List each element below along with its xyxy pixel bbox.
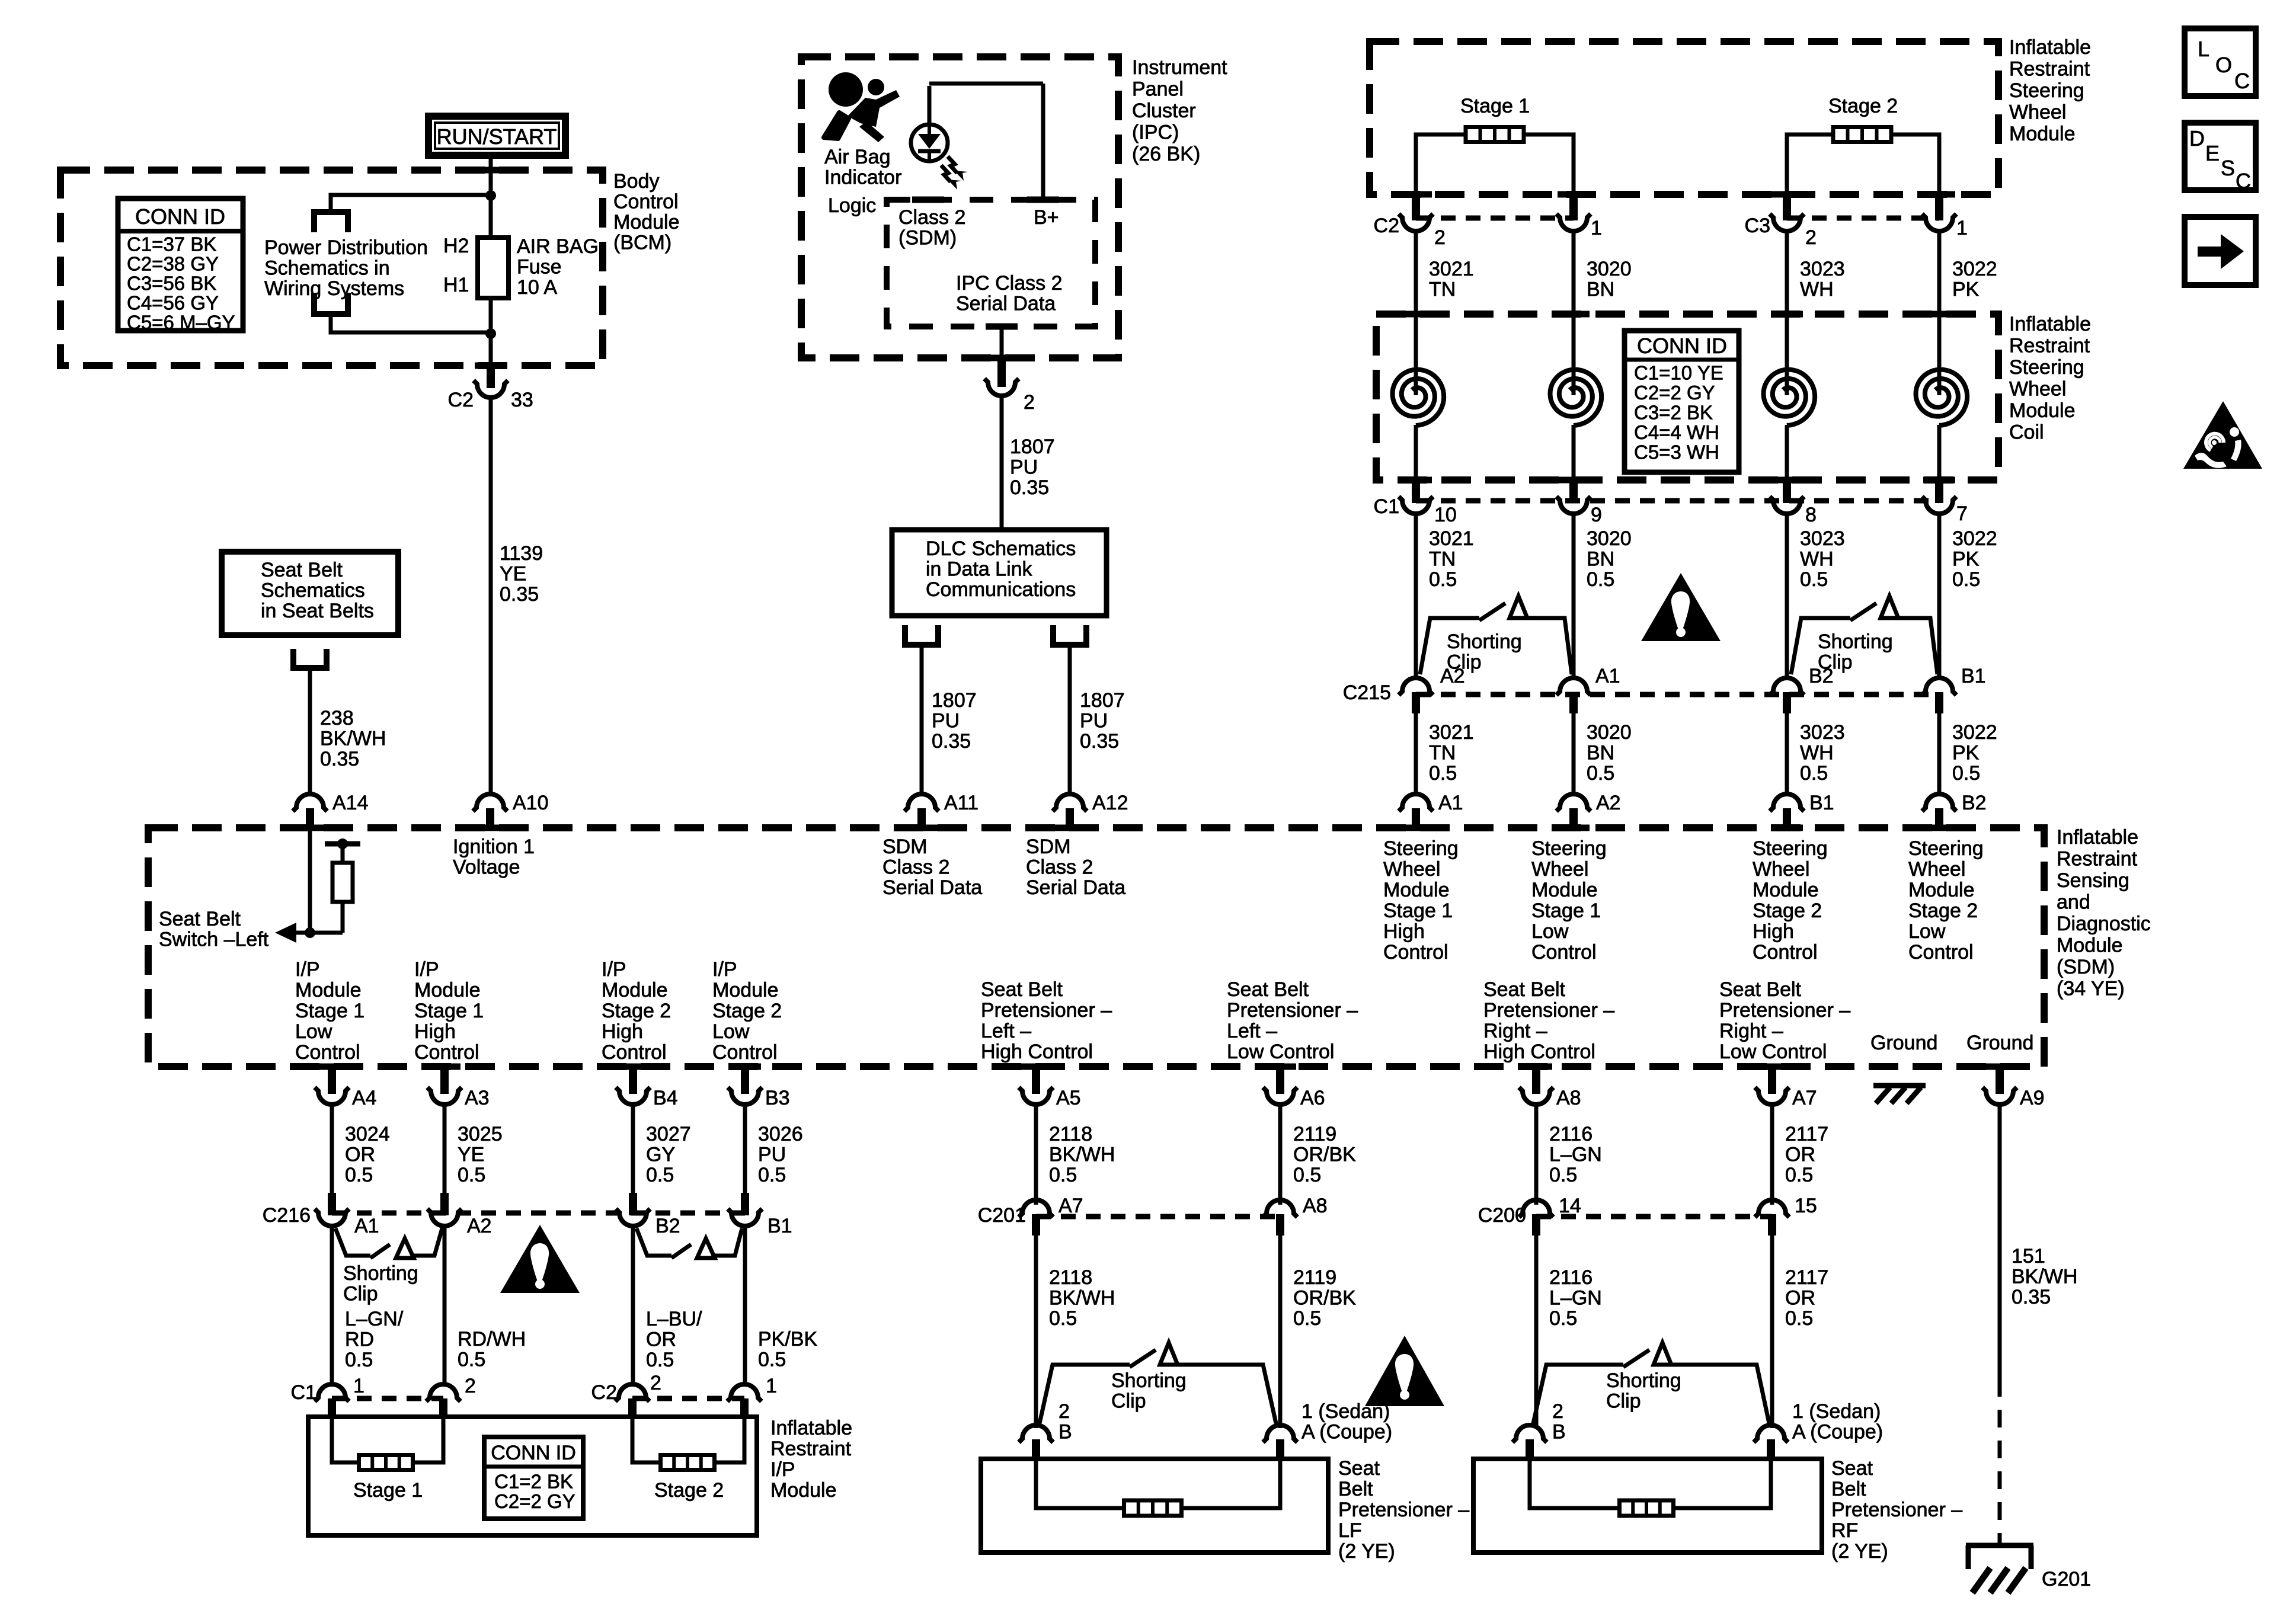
svg-text:3022: 3022 <box>1952 527 1997 550</box>
svg-text:0.5: 0.5 <box>758 1349 786 1371</box>
svg-text:Module: Module <box>613 211 680 233</box>
svg-text:0.5: 0.5 <box>458 1349 485 1371</box>
svg-text:A9: A9 <box>2020 1087 2045 1109</box>
svg-text:PK: PK <box>1952 742 1980 764</box>
svg-text:C200: C200 <box>1478 1204 1526 1227</box>
svg-text:Module: Module <box>414 979 481 1001</box>
svg-text:2118: 2118 <box>1049 1266 1092 1289</box>
svg-text:Right –: Right – <box>1719 1020 1783 1042</box>
wire squib2 left leg <box>1787 135 1833 194</box>
svg-text:Inflatable: Inflatable <box>2009 313 2091 335</box>
svg-text:Seat Belt: Seat Belt <box>1719 978 1802 1001</box>
svg-text:1807: 1807 <box>932 689 977 712</box>
svg-text:Logic: Logic <box>828 194 876 217</box>
svg-text:BN: BN <box>1587 548 1614 571</box>
svg-text:Low Control: Low Control <box>1227 1041 1334 1063</box>
in-line connector line C3 (dotted) <box>1787 216 1939 221</box>
svg-text:Control: Control <box>712 1041 778 1064</box>
svg-text:2: 2 <box>650 1372 661 1394</box>
svg-text:YE: YE <box>500 563 526 585</box>
svg-text:Inflatable: Inflatable <box>770 1417 852 1439</box>
svg-text:L: L <box>2198 37 2209 61</box>
svg-text:0.5: 0.5 <box>1429 568 1457 591</box>
LED light arrows <box>948 156 957 173</box>
svg-text:C216: C216 <box>263 1204 311 1227</box>
svg-text:PU: PU <box>758 1144 786 1166</box>
svg-text:0.5: 0.5 <box>1952 568 1980 591</box>
svg-text:RD: RD <box>345 1329 374 1351</box>
wire I/P stage1 left <box>332 1417 359 1462</box>
svg-text:Instrument: Instrument <box>1132 56 1227 79</box>
svg-text:Module: Module <box>1753 879 1819 901</box>
wire 3023 WH lower <box>1785 711 1789 796</box>
svg-text:2: 2 <box>1059 1400 1070 1423</box>
svg-text:Wheel: Wheel <box>1753 858 1809 881</box>
wire IPC top horizontal <box>929 82 1043 86</box>
svg-text:Control: Control <box>1908 941 1974 964</box>
wire 151 BK/WH dashed <box>1998 1379 2002 1544</box>
svg-text:Air Bag: Air Bag <box>824 146 891 168</box>
svg-text:C: C <box>2234 69 2250 93</box>
svg-text:B1: B1 <box>768 1215 792 1237</box>
inner box SDM logic (dashed) <box>887 200 1095 327</box>
svg-text:Seat Belt: Seat Belt <box>261 559 343 581</box>
wire inner box to IPC edge <box>1000 327 1004 363</box>
svg-text:Stage 1: Stage 1 <box>414 1000 484 1022</box>
connector A8 (SDM bottom) <box>1532 1067 1540 1094</box>
svg-text:(34 YE): (34 YE) <box>2057 978 2125 1000</box>
svg-text:High: High <box>414 1020 456 1043</box>
wire L-BU/OR <box>631 1227 635 1387</box>
svg-text:C2: C2 <box>1374 215 1399 237</box>
svg-text:B2: B2 <box>1809 665 1834 687</box>
wire 3020 BN upper <box>1572 231 1576 369</box>
svg-text:L–BU/: L–BU/ <box>646 1308 702 1330</box>
svg-text:Wheel: Wheel <box>1383 858 1440 881</box>
icon box DESC <box>2185 123 2256 190</box>
svg-text:(BCM): (BCM) <box>613 232 671 254</box>
svg-text:PK: PK <box>1952 279 1980 301</box>
wire 3021 TN lower <box>1414 711 1418 796</box>
svg-text:Shorting: Shorting <box>343 1262 418 1285</box>
svg-text:3023: 3023 <box>1800 258 1845 280</box>
wire I/P stage2 left <box>632 1417 660 1462</box>
svg-text:(SDM): (SDM) <box>898 227 957 249</box>
svg-text:3021: 3021 <box>1429 258 1474 280</box>
svg-text:Pretensioner –: Pretensioner – <box>981 999 1112 1022</box>
svg-text:9: 9 <box>1591 504 1602 526</box>
svg-text:A10: A10 <box>513 792 549 814</box>
reference box Seat Belt Schematics <box>222 552 398 635</box>
squib Stage 1 (I/P) <box>359 1455 413 1470</box>
connector 2 below IPC <box>997 358 1006 387</box>
wire 3027 GY <box>631 1105 635 1195</box>
svg-text:Schematics: Schematics <box>261 580 365 602</box>
svg-text:PU: PU <box>932 710 960 732</box>
BCM box crossing dashes <box>475 167 507 174</box>
svg-text:High: High <box>1383 920 1425 943</box>
module box Seat Belt Pretensioner RF <box>1473 1459 1822 1553</box>
svg-text:1139: 1139 <box>500 542 543 565</box>
svg-text:A7: A7 <box>1059 1195 1083 1217</box>
svg-text:1 (Sedan): 1 (Sedan) <box>1302 1400 1390 1423</box>
module box Inflatable Restraint I/P Module <box>308 1417 757 1535</box>
connector C1 pin 8 <box>1783 480 1791 503</box>
reference box DLC Schematics <box>892 530 1107 616</box>
svg-text:Module: Module <box>1531 879 1598 901</box>
svg-text:Fuse: Fuse <box>517 256 562 279</box>
wire RUN/START to fuse <box>489 156 493 201</box>
svg-text:A (Coupe): A (Coupe) <box>1792 1421 1883 1443</box>
svg-text:Restraint: Restraint <box>2009 58 2090 81</box>
connector A3 (SDM bottom) <box>440 1067 449 1094</box>
wire squib1 left leg <box>1416 135 1466 194</box>
svg-text:Stage 1: Stage 1 <box>295 1000 364 1022</box>
svg-text:3023: 3023 <box>1800 721 1845 744</box>
svg-text:A7: A7 <box>1792 1087 1817 1109</box>
svg-text:Clip: Clip <box>1606 1390 1641 1413</box>
svg-text:Pretensioner –: Pretensioner – <box>1719 999 1850 1022</box>
svg-text:L–GN: L–GN <box>1549 1144 1602 1166</box>
svg-text:BK/WH: BK/WH <box>320 728 386 750</box>
coil clockspring 4 <box>1916 370 1968 425</box>
connector B4 (SDM bottom) <box>629 1067 637 1094</box>
svg-text:Steering: Steering <box>1753 837 1828 860</box>
table CONN ID (BCM) <box>118 199 243 331</box>
svg-text:A12: A12 <box>1092 792 1128 814</box>
svg-text:C1=10 YE: C1=10 YE <box>1634 361 1723 383</box>
svg-text:1807: 1807 <box>1010 436 1055 458</box>
svg-text:RUN/START: RUN/START <box>437 124 557 149</box>
svg-text:0.35: 0.35 <box>320 748 359 770</box>
svg-text:Stage 2: Stage 2 <box>1908 900 1978 922</box>
connector A4 (SDM bottom) <box>328 1067 336 1094</box>
wire PK/BK <box>743 1227 747 1387</box>
svg-text:2118: 2118 <box>1049 1123 1092 1145</box>
squib pretensioner LF <box>1124 1500 1182 1516</box>
svg-text:B+: B+ <box>1034 206 1059 229</box>
coil clockspring 2 <box>1550 370 1602 425</box>
svg-text:1: 1 <box>766 1375 777 1397</box>
wire 3025 YE <box>443 1105 447 1195</box>
wire 3022 PK upper <box>1937 231 1942 369</box>
svg-text:2119: 2119 <box>1293 1123 1336 1145</box>
svg-text:1807: 1807 <box>1080 689 1125 712</box>
svg-text:Stage 1: Stage 1 <box>1531 900 1601 922</box>
warning triangle (pretensioner) <box>1365 1336 1444 1406</box>
svg-text:Steering: Steering <box>1908 837 1984 860</box>
connector B2 (SDM) <box>1922 794 1956 811</box>
svg-text:High Control: High Control <box>981 1041 1093 1063</box>
connector pretensioner RF pin B <box>1512 1425 1547 1442</box>
svg-text:A8: A8 <box>1303 1195 1328 1217</box>
connector B1 (SDM) <box>1770 794 1804 811</box>
svg-text:Body: Body <box>613 170 660 193</box>
svg-text:IPC Class 2: IPC Class 2 <box>956 272 1063 295</box>
wire 1807 PU upper <box>1000 396 1004 532</box>
svg-text:I/P: I/P <box>602 958 626 981</box>
wire resistor to junction row <box>341 902 345 933</box>
svg-text:C2=2 GY: C2=2 GY <box>494 1490 575 1512</box>
svg-text:BK/WH: BK/WH <box>2012 1266 2077 1288</box>
svg-text:Control: Control <box>1531 941 1597 964</box>
svg-text:Low Control: Low Control <box>1719 1041 1827 1063</box>
svg-text:0.5: 0.5 <box>646 1349 674 1371</box>
svg-text:B1: B1 <box>1961 665 1986 687</box>
resistor seat belt switch <box>332 863 353 902</box>
svg-text:8: 8 <box>1805 504 1817 526</box>
svg-text:Switch –Left: Switch –Left <box>159 929 269 951</box>
wire 2118 BK/WH lower <box>1034 1233 1038 1428</box>
svg-text:Seat Belt: Seat Belt <box>981 978 1063 1001</box>
svg-text:B: B <box>1552 1421 1566 1443</box>
svg-text:0.5: 0.5 <box>1049 1307 1077 1330</box>
svg-text:Belt: Belt <box>1338 1478 1373 1500</box>
icon air bag indicator <box>829 72 863 107</box>
svg-text:3026: 3026 <box>758 1123 803 1145</box>
connector A2 (SDM) <box>1556 794 1591 811</box>
svg-text:0.5: 0.5 <box>758 1164 786 1186</box>
svg-text:Class 2: Class 2 <box>882 856 949 879</box>
svg-text:A1: A1 <box>354 1215 379 1237</box>
svg-text:PK/BK: PK/BK <box>758 1328 817 1350</box>
svg-text:0.5: 0.5 <box>1587 568 1614 591</box>
svg-text:3022: 3022 <box>1952 721 1997 744</box>
svg-text:0.5: 0.5 <box>1293 1307 1321 1330</box>
svg-text:OR/BK: OR/BK <box>1293 1144 1356 1166</box>
off-page bracket below DLC (left) <box>902 625 908 644</box>
svg-text:OR: OR <box>1785 1144 1815 1166</box>
wire squib2 right leg <box>1891 135 1939 194</box>
shorting clip (C215 A2-A1) <box>1420 618 1479 674</box>
svg-text:3027: 3027 <box>646 1123 691 1145</box>
svg-text:C1=37 BK: C1=37 BK <box>127 233 216 255</box>
svg-text:Inflatable: Inflatable <box>2057 826 2138 849</box>
svg-text:A2: A2 <box>467 1215 492 1237</box>
connector C216 pin A1 <box>328 1193 336 1215</box>
connector C1 pin 10 <box>1412 480 1420 503</box>
off-page reference power distribution (bottom bracket) <box>311 293 317 313</box>
svg-text:1: 1 <box>1591 217 1602 239</box>
svg-text:B4: B4 <box>653 1087 678 1109</box>
svg-text:C215: C215 <box>1343 681 1391 704</box>
shorting clip (pretensioner RF) <box>1533 1365 1623 1423</box>
wire RF right leg <box>1673 1459 1771 1508</box>
connector C1 pin 1 (I/P) <box>315 1384 349 1401</box>
wire LED top feed <box>928 86 932 126</box>
svg-text:2: 2 <box>465 1375 476 1397</box>
svg-text:TN: TN <box>1429 548 1456 571</box>
svg-text:Seat Belt: Seat Belt <box>159 908 241 930</box>
in-line connector line C201 (dotted) <box>1036 1214 1280 1219</box>
svg-text:C1: C1 <box>291 1381 316 1404</box>
svg-text:2116: 2116 <box>1549 1123 1593 1145</box>
arrow to seat belt switch <box>296 931 310 935</box>
IPC box crossing dash <box>986 355 1018 361</box>
wire 3023 WH middle <box>1785 514 1789 680</box>
svg-text:High: High <box>602 1020 643 1043</box>
svg-text:Panel: Panel <box>1132 78 1184 101</box>
svg-text:Serial Data: Serial Data <box>1026 876 1125 899</box>
connector C201 pin A8 <box>1263 1200 1297 1217</box>
module box IPC (dashed) <box>801 57 1118 358</box>
svg-text:B2: B2 <box>655 1215 680 1237</box>
svg-text:Module: Module <box>712 979 779 1001</box>
svg-text:High: High <box>1753 920 1794 943</box>
svg-text:B: B <box>1059 1421 1072 1443</box>
connector C3 pin 1 <box>1935 194 1943 220</box>
wire 3022 PK lower <box>1937 711 1942 796</box>
svg-text:Ground: Ground <box>1966 1032 2033 1054</box>
svg-text:Serial Data: Serial Data <box>882 876 982 899</box>
fuse AIR BAG 10A <box>478 238 509 298</box>
svg-text:Control: Control <box>295 1041 360 1064</box>
wire 2117 OR lower <box>1770 1233 1774 1428</box>
svg-text:Stage 2: Stage 2 <box>654 1479 724 1502</box>
svg-text:A11: A11 <box>944 792 978 814</box>
svg-text:H2: H2 <box>443 235 469 257</box>
connector C2 pin 2 <box>1412 194 1420 220</box>
connector C216 pin B2 <box>629 1193 637 1215</box>
wire 3021 TN upper <box>1414 231 1418 369</box>
svg-text:Class 2: Class 2 <box>898 206 965 229</box>
connector C1 pin 7 <box>1935 480 1943 503</box>
svg-text:Module: Module <box>2009 399 2076 422</box>
connector A11 (SDM) <box>904 794 939 811</box>
svg-text:RF: RF <box>1831 1519 1858 1542</box>
svg-text:Sensing: Sensing <box>2057 869 2129 892</box>
wire I/P stage2 right <box>714 1417 744 1462</box>
coil box crossing dashes <box>1400 311 1432 318</box>
svg-text:BK/WH: BK/WH <box>1049 1144 1115 1166</box>
svg-text:Pretensioner –: Pretensioner – <box>1483 999 1614 1022</box>
svg-text:PU: PU <box>1080 710 1108 732</box>
svg-text:0.5: 0.5 <box>1293 1164 1321 1186</box>
connector C215 pin B2 <box>1770 678 1804 695</box>
svg-text:Communications: Communications <box>926 578 1076 601</box>
svg-text:Pretensioner –: Pretensioner – <box>1831 1499 1962 1521</box>
svg-text:B1: B1 <box>1809 792 1834 814</box>
svg-text:C2: C2 <box>591 1381 617 1404</box>
table CONN ID (coil) <box>1625 331 1739 472</box>
svg-text:Control: Control <box>1753 941 1818 964</box>
svg-text:0.35: 0.35 <box>2012 1286 2051 1308</box>
svg-text:E: E <box>2205 141 2220 165</box>
wire 3026 PU <box>743 1105 747 1195</box>
connector C201 pin A7 <box>1019 1200 1053 1217</box>
svg-text:C5=6 M–GY: C5=6 M–GY <box>127 311 235 333</box>
shorting clip (pretensioner LF) <box>1040 1365 1130 1423</box>
table CONN ID (I/P) <box>484 1437 583 1519</box>
wire bottom bracket to junction <box>331 315 493 332</box>
squib pretensioner RF <box>1620 1500 1674 1516</box>
svg-text:0.5: 0.5 <box>458 1164 485 1186</box>
svg-text:C: C <box>2236 169 2251 193</box>
connector C2 pin 2 (I/P) <box>615 1384 650 1401</box>
wire rail to resistor <box>341 844 345 864</box>
svg-text:C3=56 BK: C3=56 BK <box>127 272 216 294</box>
connector C1 pin 2 (I/P) <box>426 1384 461 1401</box>
svg-text:Wheel: Wheel <box>2009 378 2066 401</box>
svg-text:(26 BK): (26 BK) <box>1132 143 1200 165</box>
svg-text:L–GN: L–GN <box>1549 1287 1602 1310</box>
svg-text:Voltage: Voltage <box>453 856 520 879</box>
wire 3022 PK middle <box>1937 514 1942 680</box>
svg-text:0.5: 0.5 <box>646 1164 674 1186</box>
svg-text:Restraint: Restraint <box>770 1438 852 1460</box>
wire 1139 YE to A10 <box>489 398 493 796</box>
svg-text:Class 2: Class 2 <box>1026 856 1093 879</box>
in-line connector line C216 (dotted) <box>332 1211 745 1216</box>
svg-text:Module: Module <box>2057 934 2123 957</box>
svg-text:151: 151 <box>2012 1245 2045 1267</box>
svg-text:A4: A4 <box>352 1087 377 1109</box>
svg-text:Module: Module <box>770 1479 837 1502</box>
svg-text:Seat: Seat <box>1338 1457 1380 1480</box>
svg-text:O: O <box>2215 53 2232 77</box>
svg-text:Serial Data: Serial Data <box>956 293 1056 315</box>
wire 1807 PU to A12 <box>1068 645 1072 796</box>
inner box crossing dashes <box>912 197 944 203</box>
svg-text:0.35: 0.35 <box>932 730 971 753</box>
svg-text:Module: Module <box>295 979 362 1001</box>
svg-text:Shorting: Shorting <box>1111 1369 1187 1392</box>
svg-text:D: D <box>2189 126 2205 151</box>
svg-text:0.5: 0.5 <box>1429 762 1457 785</box>
svg-text:3020: 3020 <box>1587 258 1632 280</box>
svg-text:Right –: Right – <box>1483 1020 1547 1042</box>
svg-text:2117: 2117 <box>1785 1266 1828 1289</box>
svg-text:3022: 3022 <box>1952 258 1997 280</box>
svg-text:Module: Module <box>1908 879 1975 901</box>
svg-text:2: 2 <box>1434 226 1446 249</box>
ground G201 <box>1966 1543 2033 1548</box>
LED indicator lamp <box>911 124 948 161</box>
svg-text:LF: LF <box>1338 1519 1362 1542</box>
svg-text:High Control: High Control <box>1483 1041 1595 1063</box>
svg-text:and: and <box>2057 891 2090 914</box>
connector C2 pin 33 (BCM) <box>487 366 495 388</box>
svg-text:Wheel: Wheel <box>2009 101 2066 124</box>
svg-text:Module: Module <box>2009 123 2076 145</box>
warning triangle (steering) <box>1641 573 1721 641</box>
wire 2117 OR upper <box>1770 1105 1774 1205</box>
svg-text:Control: Control <box>602 1041 667 1064</box>
svg-text:Low: Low <box>1908 920 1946 943</box>
svg-text:in Seat Belts: in Seat Belts <box>261 600 374 622</box>
svg-text:G201: G201 <box>2042 1568 2091 1590</box>
svg-text:Ground: Ground <box>1870 1032 1937 1054</box>
svg-text:Stage 1: Stage 1 <box>353 1479 423 1502</box>
connector C215 pin B1 <box>1922 678 1956 695</box>
svg-text:I/P: I/P <box>295 958 320 981</box>
svg-text:A5: A5 <box>1056 1087 1081 1109</box>
svg-text:H1: H1 <box>443 274 469 296</box>
svg-text:Wheel: Wheel <box>1908 858 1965 881</box>
module box SDM (dashed) <box>148 828 2044 1067</box>
svg-text:Coil: Coil <box>2009 421 2044 444</box>
svg-text:Stage 1: Stage 1 <box>1460 95 1530 117</box>
svg-text:BK/WH: BK/WH <box>1049 1287 1115 1310</box>
svg-text:Stage 2: Stage 2 <box>1828 95 1898 117</box>
svg-text:Module: Module <box>602 979 668 1001</box>
coil clockspring 3 <box>1764 370 1815 425</box>
wire I/P stage1 right <box>413 1417 443 1462</box>
wire 2116 L-GN lower <box>1534 1233 1539 1428</box>
svg-text:Clip: Clip <box>343 1283 378 1305</box>
off-page bracket below seat belt box <box>290 649 296 667</box>
module box BCM (dashed) <box>60 170 603 366</box>
